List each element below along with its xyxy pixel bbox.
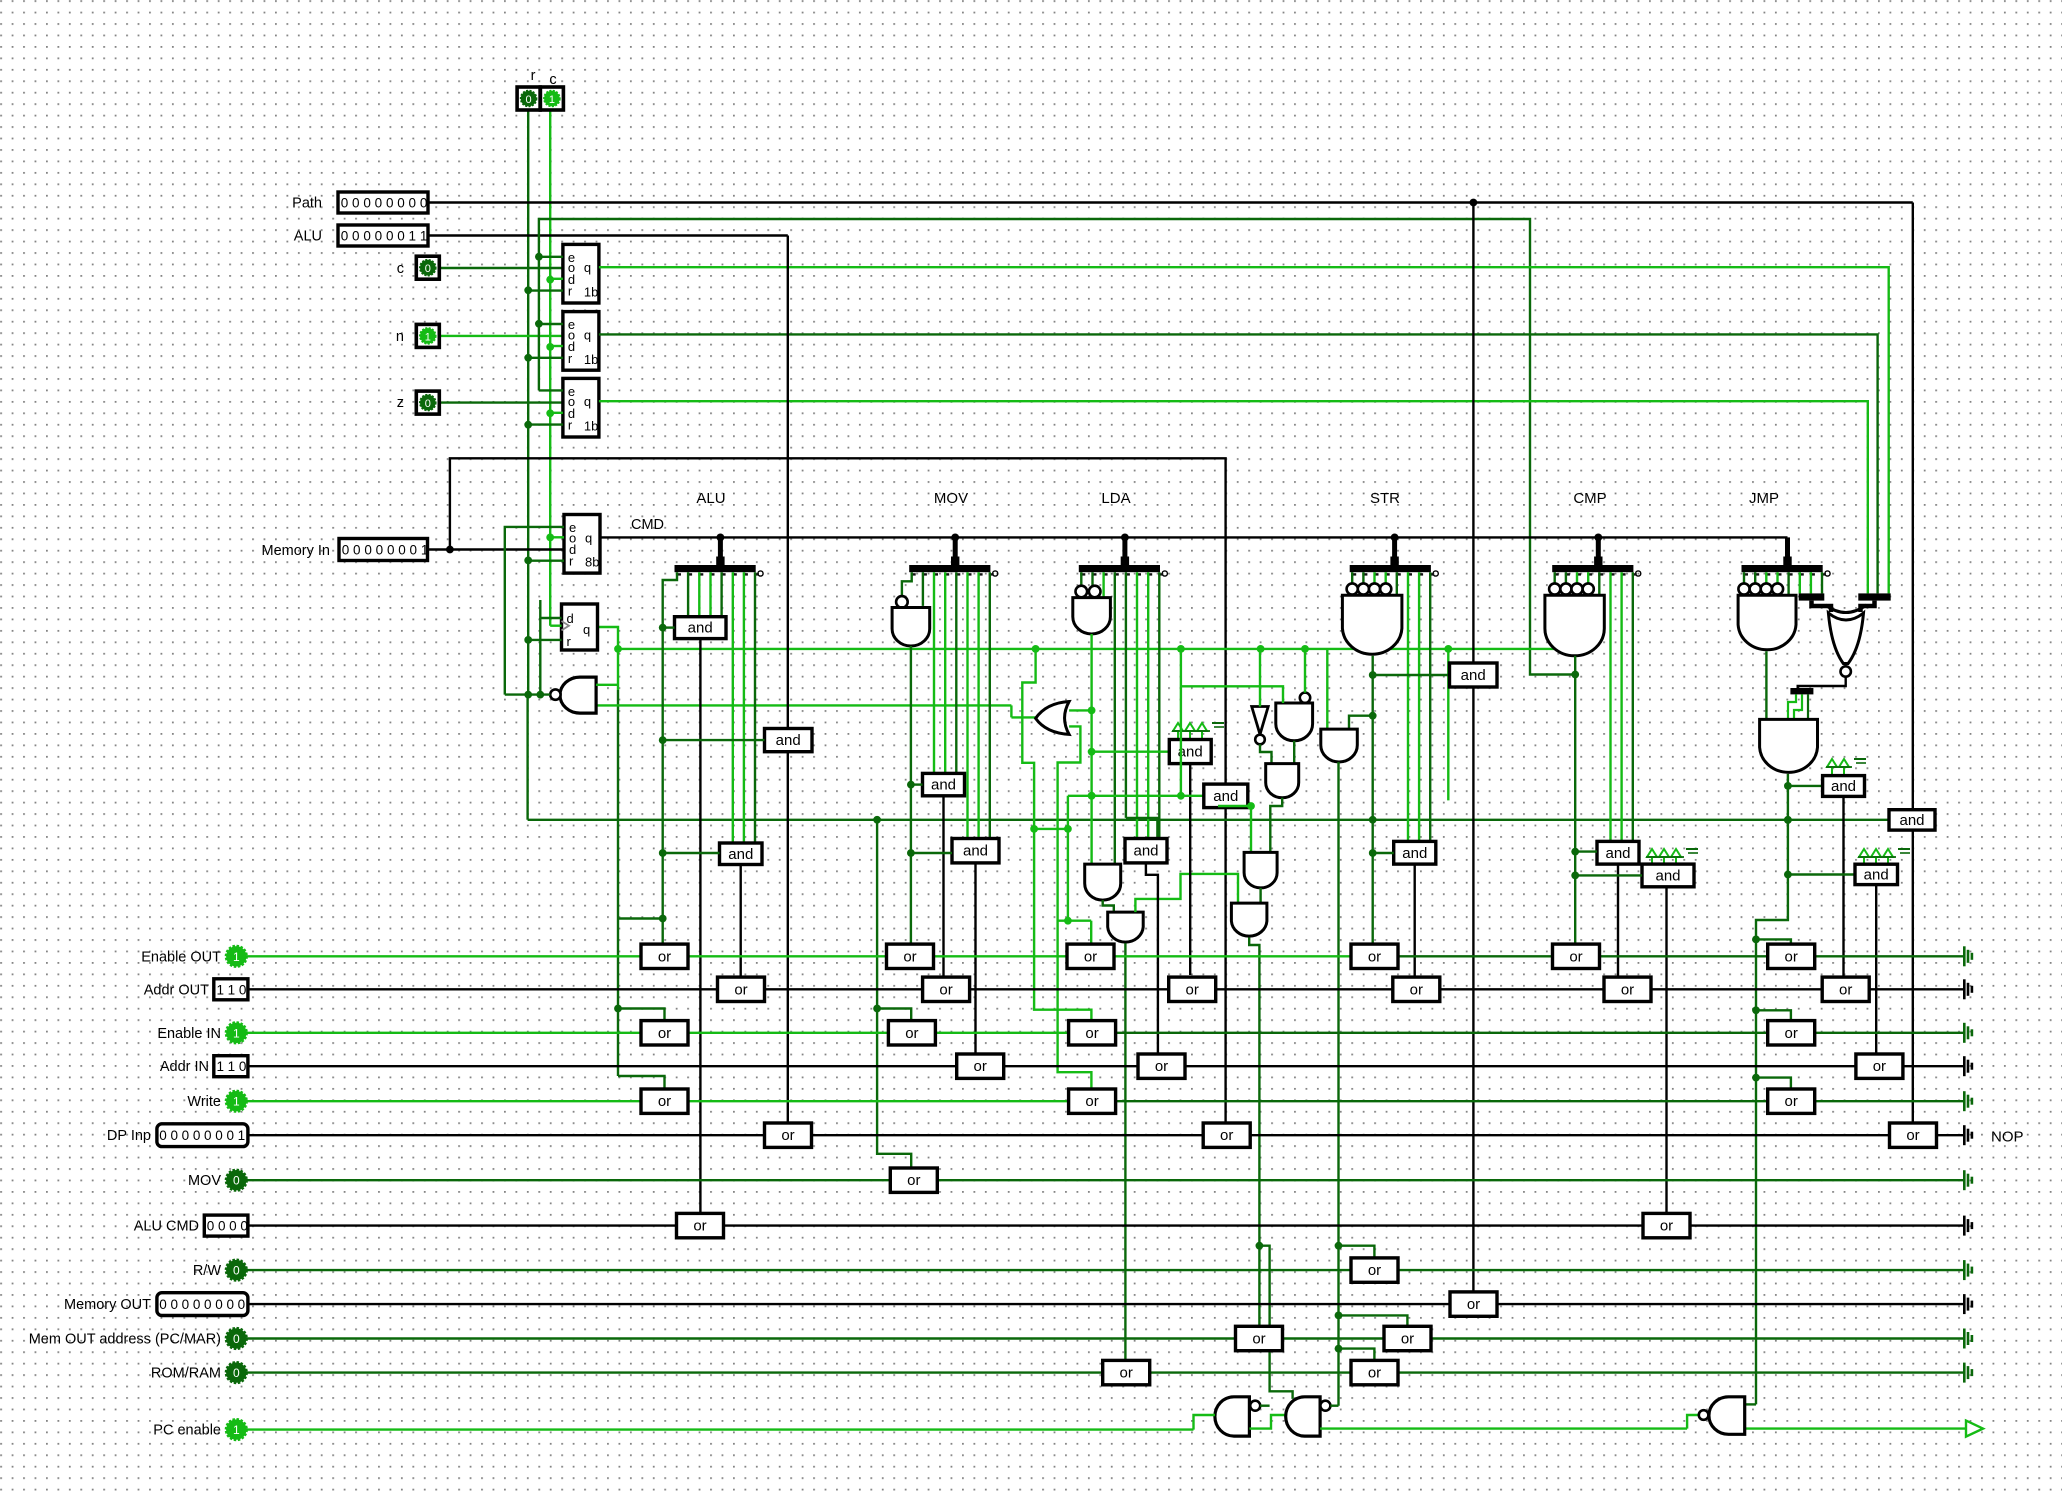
- svg-text:1: 1: [420, 229, 428, 244]
- svg-text:CMD: CMD: [631, 517, 664, 533]
- wire FF d: [540, 600, 561, 618]
- svg-text:0: 0: [397, 229, 405, 244]
- and LDA L2: [1244, 852, 1277, 888]
- svg-text:Addr OUT: Addr OUT: [144, 982, 209, 998]
- wire FF clk: [550, 625, 561, 627]
- svg-text:CMP: CMP: [1573, 490, 1606, 507]
- wire splitter drop MOV: [953, 537, 958, 566]
- svg-text:or: or: [1120, 1365, 1133, 1382]
- wire splitter drop ALU: [718, 537, 723, 566]
- or box ALU CMD x1643: [1643, 1213, 1690, 1237]
- svg-text:0: 0: [375, 229, 383, 244]
- output Memory OUT: [1963, 1294, 1966, 1314]
- svg-text:or: or: [658, 948, 671, 965]
- wire reg-z d: [550, 412, 563, 414]
- svg-text:1b: 1b: [584, 419, 598, 434]
- wire ALU bus down: [787, 236, 789, 729]
- wire MOV1 out: [942, 796, 944, 977]
- svg-text:STR: STR: [1370, 490, 1400, 507]
- output Addr OUT: [1963, 979, 1966, 999]
- wire N3 out right: [1743, 1427, 1966, 1429]
- wire row ROM/RAM: [246, 1371, 1963, 1373]
- wire CMP out: [1574, 656, 1576, 944]
- wire Path bus: [428, 201, 1913, 203]
- and C2 vdd: [1647, 849, 1657, 857]
- wire STR2 in jog: [1349, 716, 1373, 729]
- output MOV: [1963, 1170, 1966, 1190]
- svg-text:0: 0: [233, 1332, 240, 1346]
- svg-text:0: 0: [215, 1128, 223, 1143]
- gate JMP and: [1738, 583, 1749, 594]
- wire c flag: [440, 267, 563, 269]
- svg-text:0: 0: [159, 1128, 167, 1143]
- wire J1 out: [1765, 651, 1767, 719]
- wire xnor in b: [1861, 601, 1875, 612]
- svg-text:or: or: [1368, 1262, 1381, 1279]
- and LDA L1: [1266, 764, 1299, 798]
- register z 1b: [563, 378, 599, 437]
- input Mem OUT address (PC/MAR): [226, 1328, 246, 1348]
- output DP Inp: [1963, 1125, 1966, 1145]
- input Write: [226, 1091, 246, 1111]
- svg-text:or: or: [1785, 1025, 1798, 1042]
- svg-text:1b: 1b: [584, 285, 598, 300]
- wire MOV2 left: [911, 852, 952, 854]
- svg-text:or: or: [1186, 981, 1199, 998]
- wire STR out: [1371, 656, 1373, 944]
- svg-text:0: 0: [341, 196, 349, 211]
- svg-text:r: r: [568, 351, 573, 366]
- svg-text:1: 1: [233, 1095, 240, 1109]
- wire c vertical: [549, 110, 551, 626]
- and LDA1: [1125, 839, 1167, 863]
- svg-text:0: 0: [239, 1059, 247, 1074]
- wire ALU bus: [428, 234, 788, 236]
- svg-text:Addr IN: Addr IN: [160, 1059, 209, 1075]
- wire elbow MemAddr STR or: [1339, 1315, 1408, 1326]
- input R/W: [226, 1260, 246, 1280]
- wire low1 out jog: [1103, 900, 1114, 912]
- wire MOV2 out: [974, 863, 976, 1055]
- wire r vertical: [527, 110, 529, 695]
- wire A1 out: [699, 639, 701, 1215]
- svg-text:1: 1: [409, 229, 417, 244]
- svg-text:0: 0: [204, 1128, 212, 1143]
- svg-text:0: 0: [240, 1219, 248, 1234]
- and STR path: [1450, 663, 1498, 687]
- or box Enable OUT x886: [887, 944, 934, 968]
- splitter mini flags: [1858, 593, 1890, 600]
- wire reg-n e: [539, 323, 563, 325]
- svg-text:or: or: [1906, 1127, 1919, 1144]
- svg-text:LDA: LDA: [1101, 490, 1130, 507]
- svg-text:or: or: [1569, 948, 1582, 965]
- input MOV: [226, 1170, 246, 1190]
- svg-text:0: 0: [193, 1297, 201, 1312]
- or box DP Inp x1203: [1203, 1123, 1250, 1147]
- svg-text:0: 0: [341, 229, 349, 244]
- svg-text:0: 0: [410, 543, 418, 558]
- svg-text:or: or: [939, 981, 952, 998]
- input Memory In: [339, 539, 428, 561]
- and M2: [1204, 784, 1248, 808]
- or box Addr OUT x1392: [1393, 977, 1440, 1001]
- wire C2 left: [1575, 874, 1642, 876]
- svg-text:Write: Write: [187, 1094, 221, 1110]
- svg-text:Enable OUT: Enable OUT: [141, 949, 221, 965]
- svg-text:R/W: R/W: [193, 1263, 222, 1279]
- gate J2 and: [1760, 719, 1818, 772]
- svg-text:0: 0: [425, 263, 431, 275]
- and JA: [1788, 785, 1823, 787]
- wire row Addr OUT: [248, 988, 1963, 990]
- wire row R/W: [246, 1269, 1963, 1271]
- or box ROM/RAM x1102: [1103, 1360, 1150, 1384]
- and C2: [1642, 864, 1694, 887]
- svg-text:and: and: [963, 843, 988, 860]
- wire ALU bit0 elbow: [663, 572, 677, 943]
- svg-text:or: or: [1401, 1331, 1414, 1348]
- svg-text:1: 1: [425, 331, 431, 343]
- svg-text:1: 1: [421, 543, 429, 558]
- wire MOV1 left: [911, 783, 923, 785]
- svg-text:PC enable: PC enable: [153, 1423, 221, 1439]
- wire MOV row feeder: [877, 820, 911, 1167]
- wire reg-c r: [528, 289, 563, 291]
- wire vert 1067.9: [1067, 796, 1069, 921]
- wire reg8 o stub: [550, 536, 564, 538]
- svg-text:MOV: MOV: [934, 490, 968, 507]
- svg-text:0: 0: [170, 1297, 178, 1312]
- wire q branch to ALU L1 net: [618, 917, 663, 919]
- or box Write x1767: [1768, 1089, 1815, 1113]
- splitter mini cond: [1790, 688, 1813, 694]
- wire nand U1 output: [505, 693, 550, 695]
- input ALU CMD: [204, 1215, 248, 1236]
- wire STR2 out: [1337, 762, 1339, 1406]
- svg-text:or: or: [658, 1025, 671, 1042]
- svg-text:and: and: [1213, 788, 1238, 805]
- register c 1b: [563, 244, 599, 303]
- svg-text:and: and: [1831, 778, 1856, 795]
- and JA vdd: [1827, 759, 1837, 767]
- svg-text:and: and: [776, 732, 801, 749]
- wire N1 out to N2: [1249, 1415, 1285, 1429]
- wire elbow to Enable IN or ALU: [618, 1009, 665, 1022]
- and A1: [675, 617, 727, 639]
- svg-text:or: or: [1085, 1093, 1098, 1110]
- svg-text:0: 0: [352, 196, 360, 211]
- splitter ALU: [675, 565, 756, 572]
- svg-text:1: 1: [228, 982, 236, 997]
- wire reg8 e: [505, 527, 564, 695]
- input r: [517, 87, 540, 110]
- wire M1 out: [1189, 764, 1191, 975]
- wire N1 in jog: [1194, 1415, 1215, 1430]
- and MOV2: [952, 839, 999, 863]
- wire xnor out: [1798, 677, 1846, 688]
- wire A3 out: [740, 865, 742, 977]
- or box Write x1068: [1069, 1089, 1116, 1113]
- wire nand in a: [1181, 686, 1283, 703]
- svg-text:and: and: [1461, 667, 1486, 684]
- svg-text:q: q: [584, 327, 591, 342]
- svg-text:or: or: [905, 1025, 918, 1042]
- wire FF r: [528, 639, 561, 641]
- wire reg-c e: [539, 256, 563, 258]
- svg-text:r: r: [567, 634, 572, 649]
- svg-text:0: 0: [364, 543, 372, 558]
- svg-text:0: 0: [215, 1297, 223, 1312]
- and A3: [720, 843, 763, 865]
- wire long NAND input bright: [596, 704, 1011, 706]
- or box Memory OUT x1450: [1450, 1292, 1497, 1316]
- wire A3 left in: [663, 852, 720, 854]
- or box Enable OUT x1552: [1553, 944, 1600, 968]
- wire row MOV: [246, 1179, 1963, 1181]
- svg-text:0: 0: [182, 1128, 190, 1143]
- svg-text:ALU: ALU: [294, 229, 322, 245]
- svg-text:c: c: [397, 261, 404, 277]
- svg-text:1: 1: [233, 1423, 240, 1437]
- wire N2 bubble net: [1330, 1404, 1338, 1406]
- or box ROM/RAM x1351: [1351, 1360, 1398, 1384]
- svg-text:or: or: [1785, 948, 1798, 965]
- or box Mem OUT address (PC/MAR) x1235: [1236, 1326, 1283, 1350]
- input ALU: [338, 225, 428, 246]
- svg-text:or: or: [1410, 981, 1423, 998]
- wire reg-c d: [550, 278, 563, 280]
- input Addr IN: [214, 1056, 248, 1077]
- input c flag: [416, 256, 439, 279]
- or box Addr OUT x717: [718, 977, 765, 1001]
- svg-text:0: 0: [159, 1297, 167, 1312]
- output Enable OUT: [1963, 946, 1966, 966]
- svg-text:0: 0: [363, 229, 371, 244]
- or box Enable OUT x1351: [1351, 944, 1398, 968]
- wire cond bits: [1788, 694, 1796, 719]
- and JC: [1788, 873, 1855, 875]
- svg-text:0: 0: [425, 398, 431, 410]
- and LDA L3: [1231, 903, 1267, 936]
- and M1: [1169, 740, 1211, 764]
- wire q vertical to row ors: [617, 649, 619, 690]
- svg-text:or: or: [1368, 948, 1381, 965]
- output Mem OUT address (PC/MAR): [1963, 1329, 1966, 1349]
- svg-text:or: or: [693, 1218, 706, 1235]
- svg-text:or: or: [1621, 981, 1634, 998]
- output ALU CMD: [1963, 1216, 1966, 1236]
- or box Enable IN x1767: [1768, 1021, 1815, 1045]
- svg-text:0: 0: [229, 1219, 237, 1234]
- and JB: [1889, 810, 1935, 830]
- wire splitter drop STR: [1392, 537, 1397, 566]
- splitter JMP: [1742, 565, 1823, 572]
- svg-text:and: and: [931, 777, 956, 794]
- svg-text:d: d: [567, 611, 574, 626]
- wire clock-phase net left: [539, 219, 1575, 675]
- svg-text:Memory OUT: Memory OUT: [64, 1297, 151, 1313]
- or box Enable OUT x1767: [1768, 944, 1815, 968]
- wire JC out: [1875, 885, 1877, 1055]
- wire reg-z e: [539, 389, 563, 391]
- wire CMD bus: [600, 536, 1788, 538]
- svg-text:and: and: [1133, 843, 1158, 860]
- wire n flag: [440, 335, 563, 337]
- wire row Memory OUT: [248, 1303, 1963, 1305]
- and C1: [1597, 841, 1639, 864]
- wire not out jog: [1260, 744, 1272, 763]
- input Enable OUT: [226, 946, 246, 966]
- svg-text:NOP: NOP: [1991, 1129, 2024, 1146]
- input DP Inp: [157, 1124, 248, 1147]
- wire elbow MOV EnableIN: [877, 1009, 911, 1022]
- wire reg-n d: [550, 345, 563, 347]
- svg-text:r: r: [531, 68, 536, 84]
- wire reg8 r: [528, 560, 564, 562]
- svg-text:or: or: [1084, 948, 1097, 965]
- svg-text:0: 0: [409, 196, 417, 211]
- wire L2 bright in: [1250, 806, 1252, 852]
- or box Enable IN x888: [888, 1021, 935, 1045]
- svg-text:q: q: [585, 530, 592, 545]
- or box Enable OUT x1067: [1067, 944, 1114, 968]
- svg-text:and: and: [688, 620, 713, 637]
- or box Mem OUT address (PC/MAR) x1384: [1384, 1326, 1431, 1350]
- wire MOV gate out: [910, 646, 912, 785]
- svg-text:and: and: [728, 846, 753, 863]
- wire reg-n r: [528, 357, 563, 359]
- wire EnableOUT LDA or feed: [1090, 921, 1092, 944]
- gate STR and: [1347, 583, 1358, 594]
- gate MOV and: [896, 596, 908, 608]
- wire low2 in bright zigzag: [1135, 874, 1238, 912]
- nand U1 (180deg): [560, 677, 596, 713]
- wire N3 jog in: [1687, 1415, 1699, 1429]
- wire MOV gate out2: [910, 785, 912, 944]
- gate LDA low1: [1085, 864, 1121, 900]
- svg-text:or: or: [734, 981, 747, 998]
- input z flag: [416, 391, 439, 414]
- svg-text:0: 0: [375, 196, 383, 211]
- svg-text:q: q: [583, 622, 590, 637]
- svg-text:0: 0: [353, 543, 361, 558]
- svg-text:r: r: [568, 418, 573, 433]
- input ROM/RAM: [226, 1362, 246, 1382]
- output R/W: [1963, 1260, 1966, 1280]
- wire M2 left row: [1068, 795, 1204, 797]
- wire N1 bubble net: [1260, 1404, 1269, 1406]
- svg-text:0: 0: [376, 543, 384, 558]
- svg-text:or: or: [907, 1172, 920, 1189]
- svg-text:n: n: [396, 329, 404, 345]
- or box Enable IN x641: [641, 1021, 688, 1045]
- wire row Write: [246, 1100, 1116, 1102]
- wire long low horizontal: [528, 819, 1889, 821]
- nand N2: [1286, 1397, 1320, 1436]
- wire LDA column black down: [1224, 808, 1226, 1124]
- svg-text:0: 0: [204, 1297, 212, 1312]
- gate LDA and: [1076, 586, 1088, 598]
- svg-text:0: 0: [386, 196, 394, 211]
- gate STR2 and: [1321, 729, 1358, 762]
- wire bright web 920: [1058, 920, 1092, 922]
- svg-text:or: or: [1220, 1127, 1233, 1144]
- wire z flag: [440, 401, 563, 403]
- wire C2 out: [1665, 887, 1667, 1214]
- wire row Mem OUT address (PC/MAR): [246, 1337, 1963, 1339]
- or box Enable OUT x641: [641, 944, 688, 968]
- wire to nand pair: [1259, 1246, 1292, 1399]
- or box Write x641: [641, 1089, 688, 1113]
- splitter mini jmp bits: [1799, 593, 1825, 600]
- svg-text:or: or: [903, 948, 916, 965]
- wire branch 1448 down: [1447, 649, 1449, 801]
- svg-text:1: 1: [238, 1128, 246, 1143]
- wire C1 left: [1575, 850, 1597, 852]
- input Path: [338, 192, 428, 213]
- wire M1 left in: [1092, 751, 1170, 753]
- svg-text:0: 0: [352, 229, 360, 244]
- svg-text:or: or: [1660, 1218, 1673, 1235]
- flip-flop d/q: [562, 604, 598, 650]
- wire splitter drop CMP: [1596, 537, 1601, 566]
- wire A1 left in: [663, 626, 675, 628]
- svg-text:Enable IN: Enable IN: [157, 1026, 221, 1042]
- wire nand out: [1293, 741, 1295, 764]
- svg-text:0: 0: [397, 196, 405, 211]
- wire STR1 left: [1373, 852, 1394, 854]
- svg-text:q: q: [584, 394, 591, 409]
- wire Path vert: [1472, 203, 1474, 664]
- output Enable IN: [1963, 1023, 1966, 1043]
- or box R/W x1351: [1351, 1258, 1398, 1282]
- svg-text:0: 0: [182, 1297, 190, 1312]
- svg-text:0: 0: [233, 1366, 240, 1380]
- svg-text:or: or: [1252, 1331, 1265, 1348]
- wire elbow to Write or ALU: [618, 1076, 665, 1090]
- wire xnor in a: [1812, 601, 1832, 612]
- svg-text:ROM/RAM: ROM/RAM: [151, 1366, 221, 1382]
- wire row DP Inp: [248, 1134, 1963, 1136]
- wire FF q net: [598, 627, 619, 649]
- wire long bright q horizontal: [618, 648, 1581, 650]
- svg-text:0: 0: [233, 1264, 240, 1278]
- wire or-left output zigzag up: [1011, 717, 1035, 718]
- svg-text:0: 0: [526, 94, 532, 106]
- svg-text:0: 0: [218, 1219, 226, 1234]
- svg-text:0: 0: [239, 982, 247, 997]
- and MOV1: [923, 773, 965, 795]
- wire MOV bit0 elbow: [902, 572, 912, 596]
- output Write: [1963, 1091, 1966, 1111]
- svg-text:and: and: [1605, 845, 1630, 862]
- or box Addr IN x1138: [1138, 1054, 1185, 1078]
- or box Addr OUT x922: [923, 977, 970, 1001]
- svg-text:0: 0: [238, 1297, 246, 1312]
- input n flag: [416, 324, 439, 347]
- svg-text:Mem OUT address (PC/MAR): Mem OUT address (PC/MAR): [29, 1332, 221, 1348]
- svg-text:0: 0: [387, 543, 395, 558]
- svg-text:DP Inp: DP Inp: [107, 1128, 151, 1144]
- input Addr OUT: [214, 979, 248, 1000]
- svg-text:or: or: [658, 1093, 671, 1110]
- wire seg 828.9: [1034, 828, 1068, 830]
- input Enable IN: [226, 1023, 246, 1043]
- svg-text:and: and: [1402, 845, 1427, 862]
- not gate LDA: [1252, 707, 1269, 735]
- wire N3 top in: [1745, 1403, 1756, 1405]
